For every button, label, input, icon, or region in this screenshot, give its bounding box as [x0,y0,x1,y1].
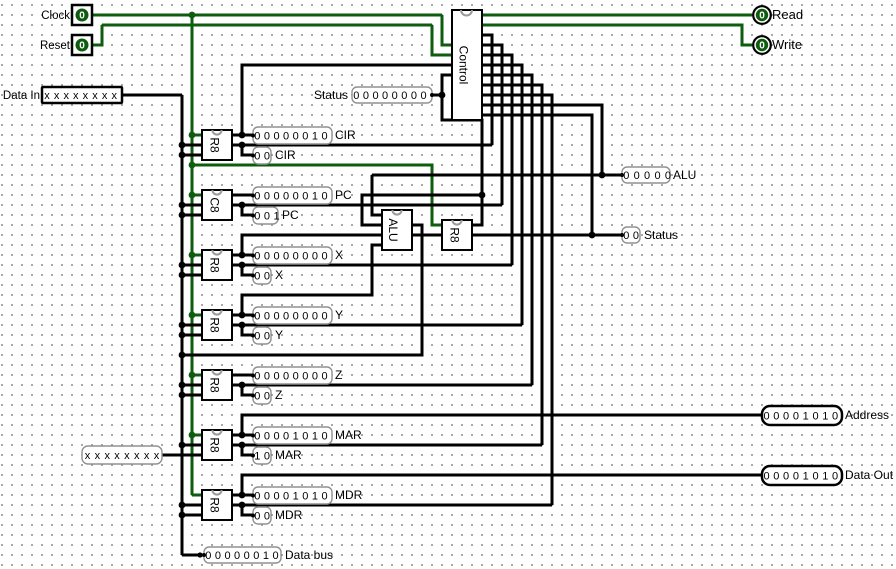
probe MDR value [253,487,332,504]
svg-text:0: 0 [264,331,270,343]
wire data bus vertical [181,95,184,555]
svg-text:0: 0 [264,311,270,323]
wire Data In to bus [122,94,182,97]
junction Y Q [239,312,246,319]
probe Z control [253,387,271,404]
svg-text:0: 0 [283,131,289,143]
wire bus stub to MAR D [182,444,203,447]
svg-text:x: x [73,90,79,102]
junction X ctrl [239,262,246,269]
svg-text:0: 0 [321,251,327,263]
svg-text:0: 0 [302,371,308,383]
svg-text:x: x [124,450,130,462]
svg-text:0: 0 [273,251,279,263]
wire control staircase MAR [482,85,542,445]
svg-text:Status: Status [644,228,678,242]
wire flag net to ALU carry [362,195,482,225]
wire MDR ctrl probe branch [242,505,253,515]
svg-text:1: 1 [312,491,318,503]
svg-text:R8: R8 [448,227,462,243]
register R8 (MDR) [202,490,232,520]
wire control pin105 [482,105,602,175]
wire MDR Q to Data Out [242,475,762,495]
junction MDR Q [239,492,246,499]
probe X control [253,267,271,284]
svg-text:Read: Read [772,7,803,22]
junction clock trunk PC [189,192,196,199]
probe PC control [253,207,278,224]
wire control line CIR [231,144,492,147]
output pin Read [753,6,771,24]
wire clock trunk end to MDR [192,494,203,497]
probe Y control [253,327,271,344]
svg-text:0: 0 [812,411,818,423]
svg-text:0: 0 [254,331,260,343]
svg-text:0: 0 [321,491,327,503]
svg-text:0: 0 [272,550,278,562]
svg-text:CIR: CIR [275,148,296,162]
svg-text:0: 0 [665,170,671,182]
junction clock at x192 [189,12,196,19]
svg-text:Reset: Reset [40,40,71,52]
wire clock to ALU-R8 [192,165,442,225]
wire PC Q to probe [231,194,253,197]
svg-text:0: 0 [254,371,260,383]
svg-text:1: 1 [822,471,828,483]
junction bus in2 [179,392,186,399]
input Data In [42,87,122,103]
junction CIR ctrl [239,142,246,149]
wire X Q to probe [231,254,253,257]
svg-text:x: x [111,90,117,102]
svg-text:0: 0 [321,371,327,383]
wire bus stub to Z D [182,384,203,387]
wire clock net horizontal [92,14,442,17]
svg-text:0: 0 [264,211,270,223]
junction PC ctrl [239,202,246,209]
junction bus in2 [179,212,186,219]
wire bus stub to PC in2 [182,214,203,217]
svg-text:Data Out: Data Out [845,468,894,482]
svg-text:0: 0 [254,391,260,403]
svg-text:0: 0 [321,311,327,323]
svg-text:0: 0 [411,90,417,102]
wire Z ctrl probe branch [242,385,253,395]
svg-text:0: 0 [321,191,327,203]
wire control staircase X [482,55,512,265]
svg-text:0: 0 [312,311,318,323]
svg-text:0: 0 [79,41,85,52]
svg-text:0: 0 [793,471,799,483]
svg-text:1: 1 [273,211,279,223]
probe Z value [253,367,332,384]
svg-text:0: 0 [302,491,308,503]
svg-text:MDR: MDR [335,488,363,502]
wire MAR Q to Address [242,415,762,435]
wire Y Q to ALU B [242,245,382,315]
wire MDR Q to probe [231,494,253,497]
svg-text:0: 0 [293,251,299,263]
wire control staircase Z [482,75,532,385]
register R8 (status) [442,220,472,250]
svg-text:x: x [44,90,50,102]
wire control staircase PC [482,45,502,205]
probe Data bus [204,547,281,563]
svg-text:0: 0 [254,311,260,323]
svg-text:0: 0 [264,431,270,443]
wire control staircase CIR [482,35,492,145]
svg-text:0: 0 [264,451,270,463]
wire bus stub to MDR D [182,504,203,507]
svg-text:0: 0 [372,90,378,102]
svg-text:0: 0 [273,431,279,443]
wire reset to Control [432,25,452,55]
wire Z Q to probe [231,374,253,377]
wire bus stub to MDR in2 [182,514,203,517]
svg-text:0: 0 [633,230,639,242]
svg-text:0: 0 [763,471,769,483]
svg-text:0: 0 [273,191,279,203]
probe CIR control [253,147,271,164]
svg-text:x: x [63,90,69,102]
input pin Reset [72,35,92,55]
wire ALU out to bus [182,225,422,355]
junction bus D [179,262,186,269]
svg-text:0: 0 [264,511,270,523]
svg-text:ALU: ALU [673,168,696,182]
svg-text:X: X [335,248,343,262]
svg-text:0: 0 [623,170,629,182]
svg-text:0: 0 [783,411,789,423]
svg-text:x: x [102,90,108,102]
wire X Q to ALU A [242,235,382,255]
wire control staircase MDR [482,95,552,505]
register R8 (Y) [202,310,232,340]
wire control pin75 to flag net [442,75,482,225]
wire CIR Q to control [242,65,452,135]
svg-text:0: 0 [283,311,289,323]
wire Y ctrl probe branch [242,325,253,335]
probe CIR value [253,127,332,144]
svg-text:0: 0 [264,371,270,383]
svg-text:Clock: Clock [41,10,70,22]
svg-text:Status: Status [314,88,348,102]
svg-text:0: 0 [283,431,289,443]
svg-text:1: 1 [293,431,299,443]
junction flag net branch [479,192,486,199]
subcircuit Control U1 [452,10,482,120]
wire clock stub to MAR register [192,434,203,437]
svg-text:CIR: CIR [335,128,356,142]
probe PC value [253,187,332,204]
wire bus stub to PC D [182,204,203,207]
register R8 (CIR) [202,130,232,160]
junction MAR ctrl [239,442,246,449]
probe MDR control [253,507,271,524]
junction MAR Q [239,432,246,439]
svg-text:0: 0 [293,311,299,323]
output Data Out [762,466,842,485]
svg-text:0: 0 [215,550,221,562]
svg-text:x: x [85,450,91,462]
junction clock trunk MAR [189,432,196,439]
junction status feedback [589,232,596,239]
wire control line MDR [231,504,552,507]
probe bus x (MAR side) [82,446,162,464]
svg-text:Y: Y [275,328,283,342]
junction Z ctrl [239,382,246,389]
svg-text:x: x [154,450,160,462]
wire control staircase Y [482,65,522,325]
wire clock stub to X register [192,254,203,257]
wire bus stub to Y in2 [182,334,203,337]
svg-text:ALU: ALU [386,218,400,241]
output Address [762,406,842,425]
wire clock to Control [442,15,452,45]
junction clock trunk X [189,252,196,259]
svg-text:0: 0 [773,411,779,423]
junction bus D [179,382,186,389]
register R8 (MAR) [202,430,232,460]
junction clock trunk Y [189,312,196,319]
svg-text:0: 0 [254,431,260,443]
svg-text:0: 0 [254,251,260,263]
junction clock trunk CIR [189,132,196,139]
probe Y value [253,307,332,324]
svg-text:0: 0 [254,151,260,163]
probe Status (control input) [352,87,432,103]
junction bus in2 [179,152,186,159]
wire bus stub to X in2 [182,274,203,277]
wire status Q row [472,234,622,237]
svg-text:1: 1 [293,491,299,503]
output pin Write [753,36,771,54]
svg-text:0: 0 [264,251,270,263]
svg-text:1: 1 [822,411,828,423]
wire x-input to MAR [162,454,203,457]
svg-text:R8: R8 [208,497,222,513]
svg-text:x: x [95,450,101,462]
probe X value [253,247,332,264]
svg-text:1: 1 [254,451,260,463]
svg-text:0: 0 [273,311,279,323]
junction bus D [179,322,186,329]
svg-text:0: 0 [254,211,260,223]
svg-text:x: x [134,450,140,462]
svg-text:Z: Z [275,388,282,402]
wire reset from pin [92,25,102,45]
wire MAR ctrl probe branch [242,445,253,455]
probe MAR value [253,427,332,444]
svg-text:1: 1 [803,471,809,483]
svg-text:0: 0 [759,11,765,22]
svg-text:0: 0 [832,471,838,483]
wire reset net horizontal [102,24,432,27]
svg-text:0: 0 [79,11,85,22]
svg-text:0: 0 [253,550,259,562]
svg-text:0: 0 [224,550,230,562]
junction MDR ctrl [239,502,246,509]
svg-text:MDR: MDR [275,508,303,522]
svg-text:0: 0 [254,191,260,203]
svg-text:1: 1 [263,550,269,562]
svg-text:0: 0 [283,371,289,383]
svg-text:0: 0 [302,431,308,443]
svg-text:0: 0 [293,371,299,383]
svg-text:0: 0 [634,170,640,182]
svg-text:1: 1 [312,131,318,143]
wire control line MAR [231,444,542,447]
junction bus D [179,502,186,509]
svg-text:PC: PC [282,208,299,222]
svg-text:Address: Address [845,408,889,422]
svg-text:X: X [275,268,283,282]
wire control pin115 [482,115,592,235]
svg-text:1: 1 [312,431,318,443]
svg-text:x: x [83,90,89,102]
svg-text:1: 1 [312,191,318,203]
junction bus in2 [179,332,186,339]
svg-text:0: 0 [283,251,289,263]
wire control line X [231,264,512,267]
junction Y ctrl [239,322,246,329]
svg-text:x: x [114,450,120,462]
wire clock vertical trunk [191,15,194,495]
wire clock stub to Z register [192,374,203,377]
svg-text:0: 0 [321,431,327,443]
wire Read from Control [482,14,752,17]
svg-text:0: 0 [254,131,260,143]
junction bus D [179,142,186,149]
svg-text:0: 0 [264,391,270,403]
svg-text:0: 0 [254,511,260,523]
svg-text:1: 1 [803,411,809,423]
svg-text:0: 0 [382,90,388,102]
svg-text:x: x [54,90,60,102]
probe ALU opcode [622,167,670,183]
svg-text:0: 0 [763,411,769,423]
junction clock trunk ALU row [189,162,196,169]
svg-text:0: 0 [302,131,308,143]
junction CIR Q [239,132,246,139]
svg-text:0: 0 [273,131,279,143]
wire clock stub to PC register [192,194,203,197]
svg-text:0: 0 [832,411,838,423]
svg-text:Y: Y [335,308,343,322]
svg-text:0: 0 [312,371,318,383]
wire ALU flags to R8 [412,234,442,237]
svg-text:0: 0 [264,271,270,283]
wire PC ctrl probe branch [242,205,253,215]
wire MAR Q to probe [231,434,253,437]
svg-text:0: 0 [623,230,629,242]
wire Y Q to probe [231,314,253,317]
svg-text:0: 0 [793,411,799,423]
junction opcode probe [599,172,606,179]
svg-text:0: 0 [302,251,308,263]
register R8 (Z) [202,370,232,400]
svg-text:0: 0 [205,550,211,562]
junction bus in2 [179,512,186,519]
junction bus D [179,202,186,209]
svg-text:0: 0 [264,491,270,503]
svg-text:0: 0 [759,41,765,52]
wire bus stub to CIR D [182,144,203,147]
svg-text:0: 0 [264,131,270,143]
wire control line PC [231,204,502,207]
svg-text:0: 0 [783,471,789,483]
svg-text:0: 0 [273,371,279,383]
svg-text:0: 0 [264,191,270,203]
svg-text:0: 0 [363,90,369,102]
input pin Clock [72,5,92,25]
svg-text:Z: Z [335,368,342,382]
wire X ctrl probe branch [242,265,253,275]
wire CIR Q to probe [231,134,253,137]
ALU U2 [382,210,412,250]
probe Status flags [622,227,640,243]
svg-text:R8: R8 [208,437,222,453]
wire clock stub to Y register [192,314,203,317]
junction X Q [239,252,246,259]
svg-text:x: x [144,450,150,462]
svg-text:0: 0 [773,471,779,483]
svg-text:C8: C8 [208,197,222,213]
svg-text:0: 0 [254,491,260,503]
svg-text:0: 0 [302,311,308,323]
svg-text:Data In: Data In [3,90,40,102]
svg-text:MAR: MAR [335,428,362,442]
junction data bus probe [197,552,202,557]
register C8 (PC) [202,190,232,220]
wire ALU opcode row [372,174,622,177]
svg-text:0: 0 [392,90,398,102]
svg-text:0: 0 [293,131,299,143]
svg-text:x: x [104,450,110,462]
svg-text:0: 0 [273,491,279,503]
svg-text:0: 0 [353,90,359,102]
svg-text:Control: Control [456,46,470,85]
probe MAR control [253,447,271,464]
svg-text:0: 0 [654,170,660,182]
wire bus stub to CIR in2 [182,154,203,157]
wire flag net to Status probe [432,94,442,97]
wire CIR ctrl probe branch [242,145,253,155]
svg-text:Data bus: Data bus [285,548,333,562]
svg-text:0: 0 [812,471,818,483]
wire Write from Control [482,25,752,45]
svg-text:PC: PC [335,188,352,202]
wire bus stub to Y D [182,324,203,327]
svg-text:0: 0 [254,271,260,283]
svg-text:0: 0 [401,90,407,102]
junction bus MAR D [179,442,186,449]
junction clock trunk Z [189,372,196,379]
junction bus in2 [179,272,186,279]
svg-text:0: 0 [283,191,289,203]
svg-text:0: 0 [321,131,327,143]
svg-text:x: x [92,90,98,102]
svg-text:0: 0 [234,550,240,562]
svg-text:0: 0 [420,90,426,102]
svg-text:R8: R8 [208,137,222,153]
svg-text:0: 0 [644,170,650,182]
wire bus stub to Z in2 [182,394,203,397]
svg-text:Write: Write [772,37,802,52]
junction ALU out on bus [179,352,186,359]
svg-text:R8: R8 [208,257,222,273]
wire control line Z [231,384,532,387]
